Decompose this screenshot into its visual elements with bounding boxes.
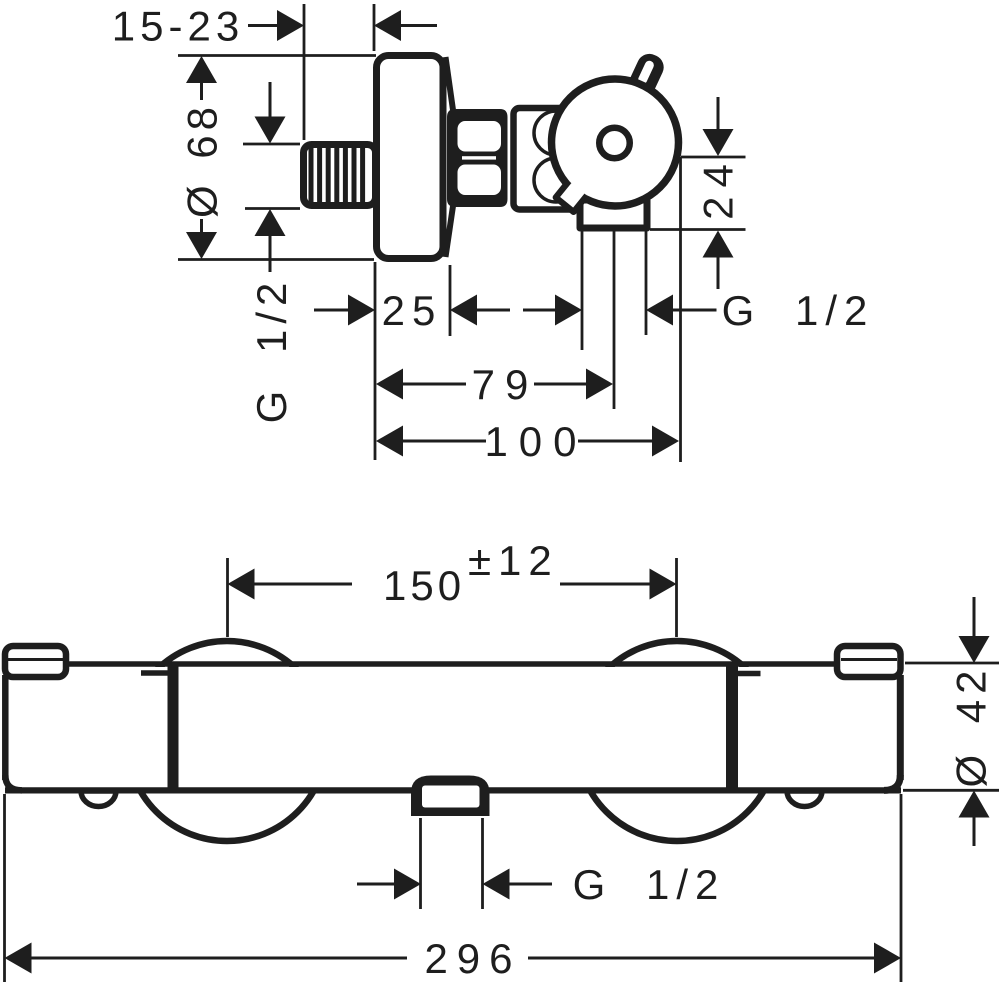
- bar body fill: [8, 667, 898, 788]
- wire: flange top extension line y=55: [178, 54, 376, 57]
- svg-text:G 1/2: G 1/2: [248, 277, 295, 424]
- wire: extension line y=157 right: [681, 156, 746, 159]
- wire: wall plane extension line x=304: [303, 4, 306, 140]
- detail stub right y=673: [738, 671, 761, 677]
- svg-text:±12: ±12: [468, 537, 559, 584]
- right handle cap: [837, 646, 901, 790]
- wire: extension line x=450: [449, 265, 452, 336]
- dimension G1/2 bottom: [357, 869, 552, 900]
- svg-text:25: 25: [382, 287, 443, 334]
- central body right edge: [726, 664, 738, 791]
- svg-text:15-23: 15-23: [112, 3, 244, 50]
- safety stop knob on handle: [626, 50, 668, 99]
- wire: extension line x=582: [581, 231, 584, 350]
- bar bottom edge: [5, 787, 901, 793]
- small tab below bar left: [81, 791, 116, 807]
- wire: extension line x=375 lower: [374, 262, 377, 460]
- svg-text:G 1/2: G 1/2: [722, 287, 875, 334]
- small tab below bar right: [787, 791, 822, 807]
- svg-text:G 1/2: G 1/2: [573, 861, 726, 908]
- escutcheon circle left: [127, 641, 327, 841]
- valve body: [514, 108, 630, 210]
- left handle cap: [5, 646, 66, 790]
- svg-text:150: 150: [383, 562, 465, 609]
- dimension Ø42 vertical: [959, 597, 990, 846]
- wire: flange face extension line x=374 upper: [373, 4, 376, 51]
- wire: G1/2 bottom extension line x=420.5: [419, 818, 422, 909]
- hex nut: [447, 109, 508, 207]
- wire: flange bottom extension line y=259: [178, 258, 374, 261]
- svg-text:Ø 42: Ø 42: [948, 664, 995, 787]
- wire: extension line x=646: [645, 231, 648, 335]
- dimension G1/2 left vertical arrows: [255, 82, 286, 272]
- dimension 150±12: [228, 569, 677, 600]
- svg-text:100: 100: [484, 418, 587, 465]
- svg-text:Ø 68: Ø 68: [179, 102, 226, 218]
- base plate under handle: [580, 200, 647, 228]
- dimension 296: [5, 943, 902, 974]
- dimension G1/2 right: [523, 295, 717, 326]
- handle hub circle: [599, 128, 630, 159]
- svg-text:296: 296: [424, 935, 521, 982]
- wire: nipple top extension line y=144: [243, 143, 300, 146]
- dimension 15-23 line+arrows: [248, 10, 437, 41]
- central body left edge: [168, 664, 179, 791]
- svg-text:24: 24: [695, 155, 742, 220]
- dimension 79: [376, 369, 613, 400]
- knurled nipple G1/2: [304, 145, 376, 206]
- thermostat scallop lobes behind handle: [534, 111, 578, 155]
- wire: extension line x=614: [613, 231, 616, 409]
- dimension Ø68 vertical: [186, 56, 217, 259]
- wire: G1/2 bottom extension line x=482.5: [481, 818, 484, 909]
- bar top edge: [66, 661, 836, 667]
- dimension 25: [314, 295, 510, 326]
- wire: 150 extension line left x=227.5: [226, 558, 229, 637]
- handle circle: [552, 79, 679, 206]
- dimension 100: [376, 426, 679, 457]
- wire: extension line y=229.5 right: [650, 228, 746, 231]
- dimension 24 vertical: [703, 97, 734, 289]
- wire: 150 extension line right x=676.5: [675, 558, 678, 637]
- svg-text:79: 79: [472, 361, 539, 408]
- wire: 296 extension line right x=901: [900, 794, 903, 982]
- wire: extension line x=680.5: [679, 157, 682, 462]
- wall flange: [377, 56, 454, 259]
- central outlet dome G1/2: [411, 776, 490, 817]
- wire: 296 extension line left x=4.5: [3, 794, 6, 982]
- wire: Ø42 extension line y=663: [905, 662, 999, 665]
- escutcheon circle right: [577, 641, 777, 841]
- detail stub left y=673: [141, 670, 168, 676]
- wire: nipple bottom extension line y=208.5: [245, 207, 300, 210]
- shower outlet stub (down-left, drawn over ring): [556, 181, 587, 212]
- wire: Ø42 extension line y=790.3: [903, 789, 999, 792]
